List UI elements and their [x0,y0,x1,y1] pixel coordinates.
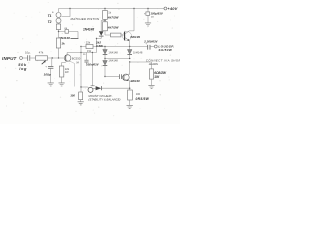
svg-text:1N4148: 1N4148 [133,50,143,54]
node: y62 junction [129,61,130,62]
node: x81 top junction [80,46,81,47]
wire: between R7 and R8 [104,19,106,22]
svg-text:100n/63V: 100n/63V [86,62,100,66]
node: rail junction at x105 [104,8,105,9]
resistor R10 (Zobel 10R) [149,62,167,85]
diode D2 [127,47,143,59]
svg-text:10µ: 10µ [25,50,30,54]
svg-text:4k7/2W: 4k7/2W [107,16,120,20]
svg-text:cs: cs [83,53,86,56]
svg-text:1k: 1k [108,11,111,15]
wire: mid rail y46.5 [81,46,130,48]
wire: R3 to input node [58,48,60,58]
capacitor C3 (lag comp) [76,53,88,65]
ground: under R11 [127,105,133,108]
svg-text:04: 04 [76,62,79,65]
terminal: input jack [20,57,23,60]
wire: base feedback loop from rail [61,9,70,17]
svg-text:BC550: BC550 [72,57,81,61]
wire: Q4 base run y76.5 [105,76,119,78]
wire: output node to C5 [130,46,148,48]
node: Q4 base feed junction [104,76,105,77]
wire: stub bar at y38.5 [71,38,79,40]
ground: under R5 [59,83,65,86]
wire: down from R2 to node [58,30,60,39]
wire: riser x96.5 [96,39,98,53]
node: input node junction [58,57,59,58]
svg-text:(STABILITY & BALANCE): (STABILITY & BALANCE) [88,98,120,102]
note: wiring remark [146,59,183,67]
node: rail junction at x148 [147,8,148,9]
svg-text:0R5/5W: 0R5/5W [136,97,150,101]
svg-text:1N4148: 1N4148 [108,50,118,54]
svg-text:1W: 1W [65,70,69,74]
wire: branch right at y31.5 [59,31,79,33]
potentiometer R4 (volume) [36,50,48,60]
node: rail junction at x70 [69,8,70,9]
node: C2 tap on input wire [52,57,53,58]
wire: +V top rail [59,8,165,10]
node: bias mid left [104,58,105,59]
node: x96.5 junction [96,38,97,39]
resistor R6 (feedback 22k) [86,41,93,53]
terminal: loudspeaker output [154,44,174,52]
svg-text:22k: 22k [86,41,91,45]
svg-text:ca: ca [151,16,154,19]
wire: C2 riser [51,58,53,66]
label: 1N4148 diode branch [59,36,70,40]
node: divider junction [104,20,105,21]
capacitor C1 (input coupling) [25,50,30,60]
note: matched pair [71,17,100,21]
wire: output tie y62 [130,61,152,63]
capacitor C6 (supply decoupling) [144,9,164,23]
node: bias top right [129,46,130,47]
svg-text:T2: T2 [48,20,52,24]
resistor R3 (1k) [56,38,65,48]
wire: emitter drop to R5 [62,61,71,66]
svg-text:4k7/2W: 4k7/2W [107,25,120,29]
transistor Q3 (driver BD139) [123,9,141,47]
svg-text:100: 100 [136,92,141,96]
diode D3 [103,59,119,77]
ground: under R10 [148,85,154,88]
wire: Q1 emitter feedback drop x74.6 [71,62,75,87]
svg-text:MATCHED PISTON: MATCHED PISTON [71,17,100,21]
svg-text:a: a [52,11,54,14]
wire: R4 to Q1 base [48,57,65,59]
svg-text:100: 100 [70,94,75,98]
label: INPUT [2,56,18,61]
note: stability remark [88,94,120,102]
label: 50k log [18,62,27,71]
capacitor C5 (output 2200u) [143,39,158,49]
label: 100n/63V [86,62,100,66]
capacitor C4 (base coupling) [120,74,123,79]
resistor R8 (load lower) [103,22,120,31]
diode D4 (series, points right) [96,86,130,90]
wire: trimmer feed vertical x92.4 [92,52,93,86]
svg-text:INPUT: INPUT [2,56,18,61]
svg-text:1W: 1W [87,49,92,53]
svg-text:100µ: 100µ [44,73,51,77]
node: y89 right junction [129,88,130,89]
capacitor C7 (small element on branch) [64,27,68,33]
label: 1N4148 for D0 [83,28,94,32]
svg-text:1N4148: 1N4148 [108,59,118,63]
transistor Q1 (input, BC550) [64,53,80,62]
label: tiny ref above T1 [52,11,54,14]
svg-text:+40V: +40V [167,6,177,11]
diode D1 [103,47,119,59]
svg-text:BD140: BD140 [131,79,141,83]
transistor T2 (current source lower) [48,18,61,24]
svg-text:1N4148: 1N4148 [83,28,94,32]
wire: branch drop at x78 [77,32,79,39]
ground: under C2 [48,83,54,86]
resistor R11 (output emitter) [128,90,150,105]
label: 2k2 / 0.5W [95,41,104,49]
wire: Q1 collector run y52.5 [67,52,96,54]
svg-text:+: + [45,64,47,68]
svg-text:2.200/63V: 2.200/63V [143,39,158,43]
svg-text:1k: 1k [61,42,65,46]
terminal: +40V supply [164,6,178,11]
resistor R7 (load upper) [103,9,120,20]
svg-text:1W: 1W [154,75,160,79]
resistor R2 (current source emitter) [56,24,60,30]
resistor R9 (base stopper) [111,33,124,37]
node: rail junction at x134 [133,8,134,9]
wire: feedback vertical x81 [80,47,82,93]
node: collector/feedback junction [80,52,81,53]
potentiometer wiper arrow [42,60,46,64]
wire: feedback bottom run y87 [80,86,88,87]
svg-text:47k: 47k [39,50,44,54]
svg-text:0.5W: 0.5W [96,44,104,48]
wire: C1 to R4 [30,57,35,59]
svg-text:log: log [19,66,27,71]
wire: stub left from divider [101,21,105,32]
transistor T1 (current source upper) [48,9,61,19]
ground: under R12 [78,102,84,105]
svg-text:T1: T1 [48,14,52,18]
wire: R8 down to VAS base run [105,31,111,35]
node: bias mid right [129,58,130,59]
node: current source output [58,31,59,32]
svg-text:LEADS: LEADS [149,62,158,66]
svg-text:4Ω/50W: 4Ω/50W [157,48,172,52]
trimmer P1 (bias preset) [88,86,96,93]
capacitor C2 (emitter bypass 100u) [44,64,54,82]
wire: bias mid tie y58.5 [105,58,130,60]
svg-text:BD139: BD139 [130,35,140,39]
wire: input terminal to C1 [22,57,27,59]
resistor R12 (feedback shunt) [70,92,82,102]
transistor Q4 (output BD140) [123,62,141,90]
diode D0 (1N4148) [97,31,104,38]
ground: under C6 [145,23,151,26]
node: bias top left [104,46,105,47]
resistor R5 (emitter 22k) [59,66,69,83]
